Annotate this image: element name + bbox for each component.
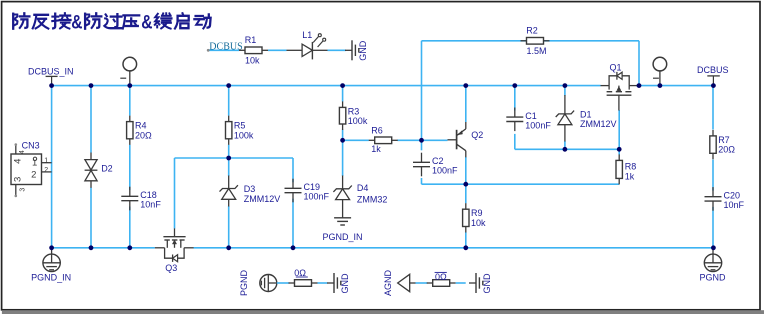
- svg-text:GND: GND: [358, 40, 368, 61]
- svg-text:AGND: AGND: [383, 270, 393, 297]
- svg-text:D4: D4: [357, 183, 369, 193]
- svg-text:R7: R7: [718, 135, 730, 145]
- svg-text:PGND_IN: PGND_IN: [323, 232, 363, 242]
- svg-text:C18: C18: [140, 190, 157, 200]
- svg-text:ZMM12V: ZMM12V: [244, 194, 281, 204]
- svg-text:C20: C20: [724, 190, 741, 200]
- svg-text:R4: R4: [135, 121, 147, 131]
- svg-text:PGND_IN: PGND_IN: [31, 273, 71, 283]
- svg-text:2: 2: [31, 169, 36, 180]
- svg-text:1: 1: [44, 157, 48, 164]
- svg-text:DCBUS: DCBUS: [697, 65, 729, 75]
- svg-text:R3: R3: [348, 106, 360, 116]
- svg-text:Q3: Q3: [165, 263, 177, 273]
- svg-text:2: 2: [44, 167, 48, 174]
- svg-text:D2: D2: [101, 163, 113, 173]
- svg-text:20Ω: 20Ω: [135, 130, 152, 140]
- svg-text:10k: 10k: [245, 56, 260, 66]
- svg-text:GND: GND: [482, 273, 492, 294]
- svg-text:R5: R5: [234, 121, 246, 131]
- svg-text:C19: C19: [304, 182, 321, 192]
- svg-text:R8: R8: [625, 161, 637, 171]
- svg-text:10k: 10k: [471, 218, 486, 228]
- svg-text:R9: R9: [471, 208, 483, 218]
- svg-text:ZMM12V: ZMM12V: [580, 119, 617, 129]
- svg-text:0Ω: 0Ω: [294, 268, 306, 278]
- svg-text:4: 4: [13, 159, 24, 164]
- svg-text:R2: R2: [526, 26, 538, 36]
- svg-text:1k: 1k: [371, 144, 381, 154]
- svg-text:L1: L1: [302, 30, 312, 40]
- svg-text:C1: C1: [525, 111, 537, 121]
- svg-text:Q1: Q1: [610, 63, 622, 73]
- svg-text:0Ω: 0Ω: [435, 272, 447, 282]
- svg-text:4: 4: [19, 150, 26, 154]
- svg-text:1k: 1k: [625, 171, 635, 181]
- svg-text:20Ω: 20Ω: [718, 145, 735, 155]
- svg-text:DCBUS_IN: DCBUS_IN: [28, 66, 74, 76]
- svg-text:10nF: 10nF: [724, 200, 745, 210]
- svg-text:&: &: [71, 11, 82, 33]
- svg-text:PGND: PGND: [239, 270, 249, 297]
- svg-text:ZMM32: ZMM32: [357, 194, 388, 204]
- svg-text:100k: 100k: [234, 130, 254, 140]
- svg-text:D1: D1: [580, 109, 592, 119]
- svg-text:R6: R6: [371, 126, 383, 136]
- svg-text:DCBUS: DCBUS: [209, 41, 242, 52]
- svg-text:100nF: 100nF: [525, 121, 551, 131]
- svg-text:C2: C2: [432, 156, 444, 166]
- svg-text:1.5M: 1.5M: [527, 46, 547, 56]
- svg-text:100nF: 100nF: [432, 166, 458, 176]
- svg-text:&: &: [141, 11, 152, 33]
- svg-text:Q2: Q2: [471, 130, 483, 140]
- svg-text:100nF: 100nF: [304, 192, 330, 202]
- svg-text:CN3: CN3: [22, 140, 40, 150]
- svg-text:100k: 100k: [348, 116, 368, 126]
- svg-text:3: 3: [20, 188, 27, 192]
- svg-text:3: 3: [13, 177, 24, 182]
- svg-text:R1: R1: [245, 35, 257, 45]
- svg-text:GND: GND: [340, 273, 350, 294]
- svg-text:PGND: PGND: [699, 273, 726, 283]
- svg-text:D3: D3: [244, 184, 256, 194]
- svg-text:10nF: 10nF: [140, 200, 161, 210]
